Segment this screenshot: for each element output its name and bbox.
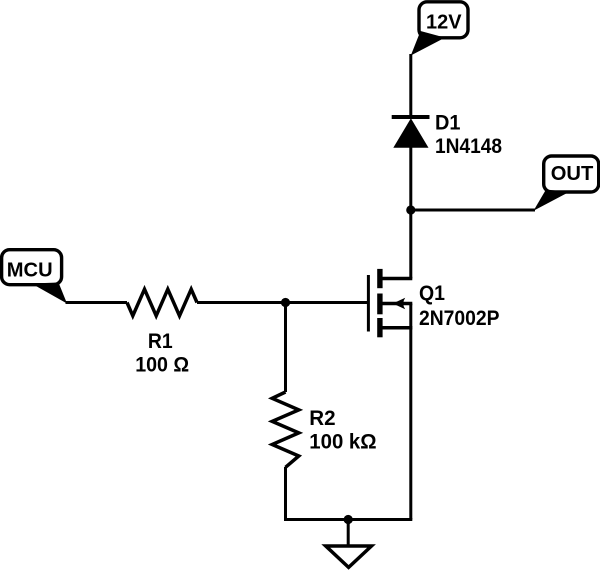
svg-text:1N4148: 1N4148 [435, 134, 502, 158]
ground [321, 520, 376, 570]
net label OUT [534, 156, 599, 211]
svg-text:MCU: MCU [7, 260, 53, 282]
wire MCU to R1 [66, 301, 128, 304]
svg-text:2N7002P: 2N7002P [419, 306, 500, 330]
net label MCU [2, 250, 67, 304]
D1 designator and value label [435, 111, 502, 159]
svg-text:D1: D1 [435, 111, 461, 135]
svg-text:12V: 12V [426, 12, 462, 34]
wire R2 to bottom rail [284, 467, 287, 520]
R1 designator and value label [135, 329, 189, 376]
wire Q1 source to bottom rail [409, 328, 412, 520]
wire OUT node to Q1 drain [409, 210, 412, 279]
net label 12V [411, 2, 468, 56]
wire D1 to OUT node [409, 146, 412, 210]
Q1 designator and value label [419, 281, 500, 330]
svg-text:100 Ω: 100 Ω [135, 352, 189, 376]
diode D1 [392, 117, 430, 148]
resistor R1 [127, 289, 197, 316]
R2 designator and value label [309, 406, 376, 453]
wire R1 to Q1 gate [197, 301, 367, 304]
svg-text:100 kΩ: 100 kΩ [309, 429, 376, 453]
svg-text:OUT: OUT [551, 163, 594, 185]
svg-text:R1: R1 [148, 329, 173, 353]
wire gate node to R2 [284, 303, 287, 393]
node ground junction [344, 515, 353, 524]
svg-text:R2: R2 [309, 406, 335, 430]
wire 12V to D1 [409, 54, 412, 117]
node OUT junction [406, 205, 415, 214]
svg-text:Q1: Q1 [419, 281, 445, 305]
node gate junction [281, 298, 290, 307]
bottom rail wire [284, 518, 412, 521]
transistor Q1 [368, 269, 412, 337]
resistor R2 [272, 392, 299, 467]
wire node to OUT label [411, 209, 535, 212]
